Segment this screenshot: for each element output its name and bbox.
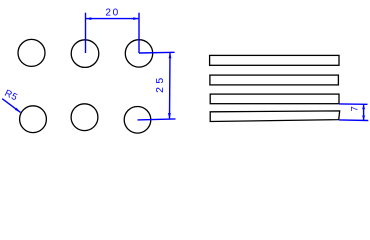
circle hole C4 (bottom-left) bbox=[20, 106, 47, 133]
dimension 25: top arrowhead bbox=[169, 52, 172, 58]
circle hole C6 (bottom-right) bbox=[124, 107, 151, 134]
radius leader R5: arrowhead at circle C4 bbox=[15, 108, 21, 113]
dimension 7: top arrowhead bbox=[362, 104, 365, 109]
radius leader R5: text label (rotated) bbox=[3, 88, 20, 104]
dimension 7: bottom arrowhead bbox=[362, 116, 365, 121]
dimension 7: bottom extension line from P4 bottom-right corner bbox=[339, 119, 368, 122]
svg-text:25: 25 bbox=[154, 74, 166, 92]
bar plate P4 (bottom, slightly tilted) bbox=[210, 111, 340, 122]
dimension 20: dimension line bbox=[86, 18, 140, 20]
dimension 25: top extension line from C3 center bbox=[139, 51, 175, 54]
dimension 20: right extension line from C3 center bbox=[138, 13, 140, 53]
dimension 7: dimension line bbox=[363, 104, 365, 120]
dimension 20: left extension line from C2 center bbox=[85, 13, 87, 53]
dimension 20: text label bbox=[105, 8, 120, 19]
dimension 25: dimension line bbox=[169, 52, 172, 119]
svg-text:7: 7 bbox=[349, 106, 360, 111]
svg-text:20: 20 bbox=[105, 8, 120, 19]
dimension 25: bottom extension line from C6 center bbox=[138, 119, 176, 120]
circle hole C5 (bottom-middle) bbox=[71, 104, 98, 131]
bar plate P3 bbox=[210, 94, 339, 104]
bar plate P1 (top) bbox=[210, 55, 339, 65]
dimension 7: text label (rotated) bbox=[349, 106, 360, 111]
circle hole C3 (top-right) bbox=[125, 40, 152, 67]
bar plate P2 bbox=[210, 75, 339, 85]
dimension 25: bottom arrowhead bbox=[168, 113, 171, 119]
dimension 20: right arrowhead bbox=[133, 17, 139, 20]
dimension 25: text label (rotated) bbox=[154, 74, 166, 92]
dimension 20: left arrowhead bbox=[86, 17, 92, 20]
circle hole C1 (top-left) bbox=[18, 39, 45, 66]
radius leader R5: leader line bbox=[2, 99, 20, 113]
circle hole C2 (top-middle) bbox=[71, 40, 99, 68]
dimension 7: top extension line from P3 bottom-right corner bbox=[339, 103, 368, 105]
